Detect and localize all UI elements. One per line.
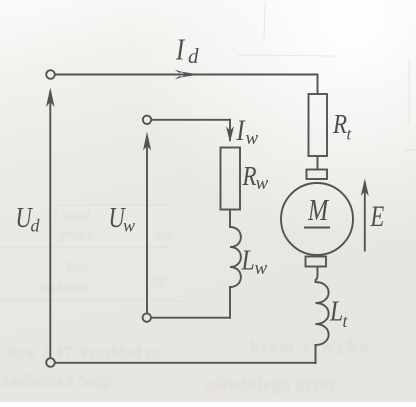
svg-text:d: d [188, 44, 199, 68]
terminal (middle top node, + of Uw) [143, 116, 151, 124]
wire Rt to motor [317, 156, 319, 170]
emf arrow E (head) [361, 179, 369, 197]
svg-text:Pro-: Pro- [65, 261, 91, 276]
svg-text:Rys. 5.47. Przykład za: Rys. 5.47. Przykład za [8, 343, 161, 362]
motor M body [281, 183, 353, 255]
svg-text:R: R [332, 110, 347, 139]
svg-text:L: L [329, 296, 343, 327]
svg-text:E: E [370, 199, 385, 233]
svg-text:zadatnik: zadatnik [40, 280, 89, 295]
svg-text:L: L [241, 245, 255, 276]
inductor Lw [230, 227, 241, 287]
wire top horizontal [55, 74, 317, 76]
svg-text:M: M [307, 193, 330, 228]
svg-text:ośredniego przez: ośredniego przez [206, 375, 338, 394]
svg-text:d: d [31, 216, 41, 236]
wire middle top horizontal [152, 119, 230, 121]
wire Lt to bottom [315, 345, 317, 363]
voltage arrow Ud (head) [46, 88, 55, 108]
motor M brush (bottom) [306, 257, 327, 267]
wire middle bottom horizontal [152, 317, 231, 319]
wire Rw to Lw [229, 210, 231, 228]
voltage arrow Uw (head) [143, 132, 151, 151]
motor M brush (top) [307, 170, 328, 180]
svg-text:Układ: Układ [53, 209, 90, 225]
svg-text:R: R [242, 162, 257, 191]
svg-text:10: 10 [150, 275, 164, 290]
terminal (middle bottom node, - of Uw) [143, 313, 151, 321]
wire Lw to middle bottom [229, 287, 231, 318]
svg-text:I: I [175, 33, 186, 67]
wire motor to Lt [316, 267, 318, 283]
wire down to Rw [229, 120, 231, 140]
inductor Lt [316, 282, 329, 345]
current arrow Id (head) [181, 72, 200, 78]
terminal (bottom-left node, - of Ud) [46, 358, 55, 367]
wire right drop to Rt [317, 75, 319, 95]
svg-text:w: w [123, 216, 135, 236]
resistor Rt [309, 94, 328, 156]
svg-text:zasilaniu z bezp: zasilaniu z bezp [2, 371, 111, 390]
current arrow Iw (head) [226, 126, 234, 142]
svg-text:wa: wa [155, 229, 171, 244]
svg-text:pracy: pracy [59, 227, 94, 243]
voltage arrow Ud (shaft) [49, 92, 51, 357]
wire bottom horizontal [55, 362, 315, 364]
motor M underline [304, 227, 330, 229]
svg-text:w: w [255, 258, 268, 279]
svg-text:w: w [256, 173, 269, 194]
svg-text:w: w [246, 128, 259, 149]
resistor Rw [221, 148, 241, 210]
terminal (top-left node, + of Ud) [46, 70, 55, 79]
svg-text:hiem c wybu: hiem c wybu [250, 337, 371, 356]
emf arrow E (shaft) [364, 183, 366, 251]
voltage arrow Uw (shaft) [146, 138, 148, 313]
ghost bleed-through text (background of scan) [2, 164, 371, 394]
